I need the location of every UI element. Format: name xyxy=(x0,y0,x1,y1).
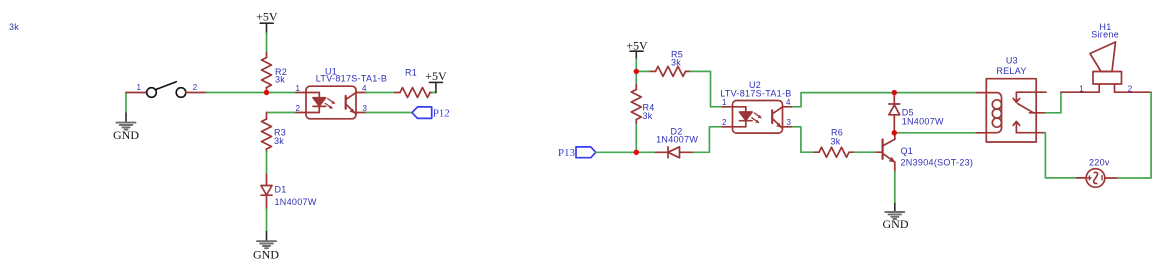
svg-text:2: 2 xyxy=(722,118,727,127)
svg-text:R1: R1 xyxy=(405,67,417,77)
svg-text:3k: 3k xyxy=(274,136,284,146)
svg-text:4: 4 xyxy=(786,98,791,107)
ground GND2 (below D1) xyxy=(257,232,276,249)
svg-text:2: 2 xyxy=(193,83,198,92)
svg-text:Sirene: Sirene xyxy=(1091,30,1119,40)
diode D5 (flyback) xyxy=(889,93,900,133)
svg-text:P12: P12 xyxy=(433,108,450,120)
resistor R5 xyxy=(651,66,691,76)
wire: junction to R5 xyxy=(636,70,650,72)
svg-text:D1: D1 xyxy=(275,185,287,195)
svg-text:1: 1 xyxy=(722,98,727,107)
wire: +5V to R2 xyxy=(266,33,268,53)
svg-text:220v: 220v xyxy=(1089,157,1110,167)
wire: +5V to junction xyxy=(635,59,637,71)
opto-coupler U1 xyxy=(296,86,366,119)
junction node at R2 bottom xyxy=(264,90,269,95)
svg-text:3k: 3k xyxy=(643,111,653,121)
svg-text:+5V: +5V xyxy=(256,9,278,23)
opto-coupler U2 xyxy=(723,101,793,134)
wire: P13 to D2 xyxy=(596,151,656,153)
junction node at R4 / P13 / D2 xyxy=(634,150,639,155)
wire: D1 to GND2 xyxy=(266,209,268,232)
svg-text:3k: 3k xyxy=(9,22,19,32)
wire: U1 pin2 row to R3 xyxy=(267,112,297,114)
wire: U1 pin4 to R1 xyxy=(366,92,395,94)
wire: junction to R4 xyxy=(635,71,637,84)
svg-text:3k: 3k xyxy=(831,137,841,147)
svg-text:3: 3 xyxy=(787,118,792,127)
switch SW1 pin 2 stub xyxy=(186,92,206,94)
relay U3 xyxy=(977,79,1047,142)
diode D1 xyxy=(261,175,272,210)
svg-text:Q1: Q1 xyxy=(901,146,914,156)
junction node at D5 bottom xyxy=(892,130,897,135)
ground GND3 (below Q1) xyxy=(885,204,904,220)
diode D2 xyxy=(656,147,694,158)
wire: R6 to Q1 base xyxy=(854,151,877,153)
wire: R4 to P13 row xyxy=(635,125,637,153)
wire: switch pin2 to U1 pin1 xyxy=(206,92,296,94)
wire: R1 to +5V stem xyxy=(432,92,436,94)
wire: U1 pin3 to P12 xyxy=(366,112,412,114)
svg-text:3k: 3k xyxy=(275,75,285,85)
switch SW1 body xyxy=(147,82,186,98)
resistor R3 xyxy=(262,113,272,152)
ground GND1 (left of switch) xyxy=(117,112,136,129)
resistor R4 xyxy=(631,85,641,125)
svg-text:U3: U3 xyxy=(1006,55,1018,65)
svg-text:RELAY: RELAY xyxy=(996,66,1026,76)
wire: Q1 emitter to GND3 xyxy=(894,172,896,204)
svg-text:1: 1 xyxy=(296,84,301,93)
junction node at +5V / R5 / R4 xyxy=(634,69,639,74)
wire: relay NC down to 220v xyxy=(1045,133,1077,178)
AC source 220v xyxy=(1077,169,1116,188)
wire: U2 pin3 down to R6 xyxy=(793,127,815,152)
svg-text:1N4007W: 1N4007W xyxy=(902,117,944,127)
svg-text:+5V: +5V xyxy=(626,38,648,52)
siren H1 xyxy=(1061,42,1151,92)
wire: U2 pin4 up to top rail xyxy=(793,93,977,107)
resistor R2 xyxy=(262,53,272,93)
wire: sirene pin2 down to 220v right xyxy=(1116,92,1151,178)
transistor Q1 xyxy=(877,133,896,172)
wire: relay common to sirene pin1 xyxy=(1045,92,1061,113)
wire: GND1 riser to switch pin 1 xyxy=(125,93,127,112)
svg-text:2: 2 xyxy=(296,104,301,113)
svg-text:1N4007W: 1N4007W xyxy=(656,134,698,144)
svg-text:1: 1 xyxy=(137,83,142,92)
resistor R6 xyxy=(814,147,854,157)
wire: D2 to U2 pin2 xyxy=(694,127,723,153)
svg-text:1N4007W: 1N4007W xyxy=(275,197,317,207)
svg-text:GND: GND xyxy=(883,217,909,231)
junction node at D5 top xyxy=(892,90,897,95)
switch SW1 pin 1 stub xyxy=(126,92,146,94)
wire: R5 to U2 pin1 xyxy=(691,71,723,106)
svg-text:GND: GND xyxy=(113,128,139,142)
svg-text:2: 2 xyxy=(1128,84,1133,93)
svg-text:+5V: +5V xyxy=(425,69,447,83)
svg-text:1: 1 xyxy=(1079,84,1084,93)
svg-text:LTV-817S-TA1-B: LTV-817S-TA1-B xyxy=(316,73,387,83)
svg-text:2N3904(SOT-23): 2N3904(SOT-23) xyxy=(901,158,974,168)
net port P12 xyxy=(412,107,432,119)
svg-text:LTV-817S-TA1-B: LTV-817S-TA1-B xyxy=(720,89,791,99)
wire: R3 to D1 xyxy=(266,152,268,175)
svg-text:3k: 3k xyxy=(671,58,681,68)
svg-text:GND: GND xyxy=(253,248,279,262)
resistor R1 xyxy=(395,88,432,98)
svg-text:P13: P13 xyxy=(558,147,576,159)
wire: D5 bottom rail to relay coil xyxy=(894,132,976,134)
